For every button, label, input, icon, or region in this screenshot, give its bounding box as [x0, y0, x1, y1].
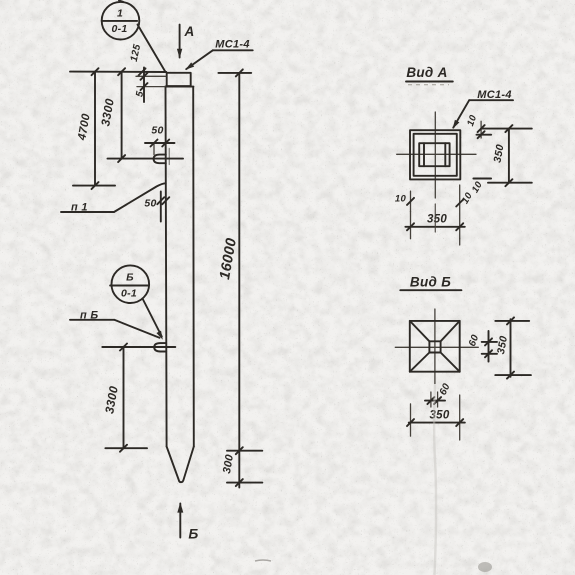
- pile cap MC1-4 (head plate): [167, 73, 191, 86]
- svg-text:350: 350: [495, 335, 510, 355]
- dimension 3300 upper: [98, 72, 183, 163]
- scan smudge bottom right: [478, 562, 492, 572]
- view A mesh grid: [419, 143, 449, 166]
- title View B: [400, 275, 461, 291]
- callout circle B/0-1: [110, 265, 149, 303]
- callout B leader with arrow to loop PB: [143, 299, 163, 340]
- view B centerlines: [395, 309, 478, 384]
- scan fold streak below view B: [434, 385, 436, 575]
- callout circle 1/0-1: [102, 1, 140, 40]
- view B diagonals: [410, 321, 460, 372]
- label PB with leader: [70, 310, 160, 338]
- svg-text:10: 10: [470, 179, 485, 195]
- dimension 4700: [73, 72, 115, 190]
- label MC1-4 right with leader: [453, 89, 513, 129]
- svg-text:0-1: 0-1: [121, 288, 137, 300]
- svg-text:Вид Б: Вид Б: [410, 275, 451, 290]
- dimension 50 (loop offset): [145, 125, 175, 155]
- scan smudge bottom center: [255, 560, 271, 561]
- view A dim 10 top right: [465, 113, 509, 138]
- dimension 300 (tip): [221, 447, 262, 486]
- view A outer square (cap plate): [410, 130, 460, 179]
- svg-text:0-1: 0-1: [111, 23, 127, 35]
- svg-text:Вид А: Вид А: [406, 65, 447, 80]
- loop PB level line: [102, 344, 175, 351]
- svg-text:350: 350: [429, 410, 449, 422]
- view B center square (tip flat): [429, 341, 440, 352]
- svg-text:350: 350: [492, 143, 507, 163]
- view B outer square: [410, 321, 460, 372]
- top dimension line: [70, 68, 166, 75]
- view A centerlines: [397, 112, 476, 198]
- view B dim 60 right: [467, 331, 497, 362]
- view B dim 350 bottom: [407, 395, 465, 440]
- svg-text:1: 1: [117, 8, 123, 20]
- loop P1 anchor line inside shaft: [168, 149, 170, 165]
- svg-text:60: 60: [438, 382, 453, 397]
- label MC1-4 top with leader: [185, 39, 252, 70]
- svg-text:10: 10: [460, 190, 475, 206]
- svg-text:16000: 16000: [217, 237, 240, 281]
- dimension 16000: [217, 69, 251, 487]
- svg-text:300: 300: [221, 453, 236, 475]
- svg-text:А: А: [183, 24, 194, 39]
- svg-text:МС1-4: МС1-4: [477, 89, 512, 101]
- svg-text:125: 125: [129, 43, 143, 63]
- title View A: [406, 65, 453, 85]
- lifting loop P1: [154, 155, 166, 164]
- svg-text:Б: Б: [188, 526, 198, 542]
- callout 1 leader to pile top: [138, 25, 166, 72]
- label P1 with leader: [61, 183, 166, 213]
- view B dim 350 right: [495, 317, 531, 378]
- svg-text:10: 10: [395, 194, 407, 205]
- view A dim 10 bottom left: [395, 191, 414, 211]
- dimension 50 lower: [144, 192, 169, 222]
- pile shaft: [165, 87, 194, 447]
- svg-text:МС1-4: МС1-4: [215, 39, 250, 51]
- view B dim 60 bottom: [425, 382, 453, 407]
- view arrow A: [177, 24, 195, 59]
- dimension 5 (cap height): [134, 68, 166, 103]
- view A inner square (pile outline): [414, 134, 457, 176]
- svg-text:3300: 3300: [98, 97, 117, 127]
- view arrow B: [177, 503, 198, 542]
- view A dim 350 right: [473, 125, 531, 186]
- view A dim 10 10 bottom right: [456, 179, 485, 238]
- svg-text:60: 60: [467, 333, 481, 348]
- svg-text:10: 10: [465, 113, 479, 128]
- svg-text:4700: 4700: [76, 112, 93, 142]
- svg-text:350: 350: [427, 214, 447, 226]
- lifting loop PB: [154, 343, 166, 351]
- svg-text:3300: 3300: [102, 385, 121, 415]
- svg-text:Б: Б: [126, 272, 134, 284]
- view A centerline below: [434, 204, 436, 232]
- svg-text:50: 50: [144, 198, 156, 210]
- svg-text:50: 50: [151, 125, 163, 137]
- paper speckle texture: [0, 0, 1, 1]
- pile tip taper: [167, 447, 194, 483]
- view A dim 350 bottom: [405, 212, 464, 245]
- dimension 3300 lower: [102, 347, 147, 452]
